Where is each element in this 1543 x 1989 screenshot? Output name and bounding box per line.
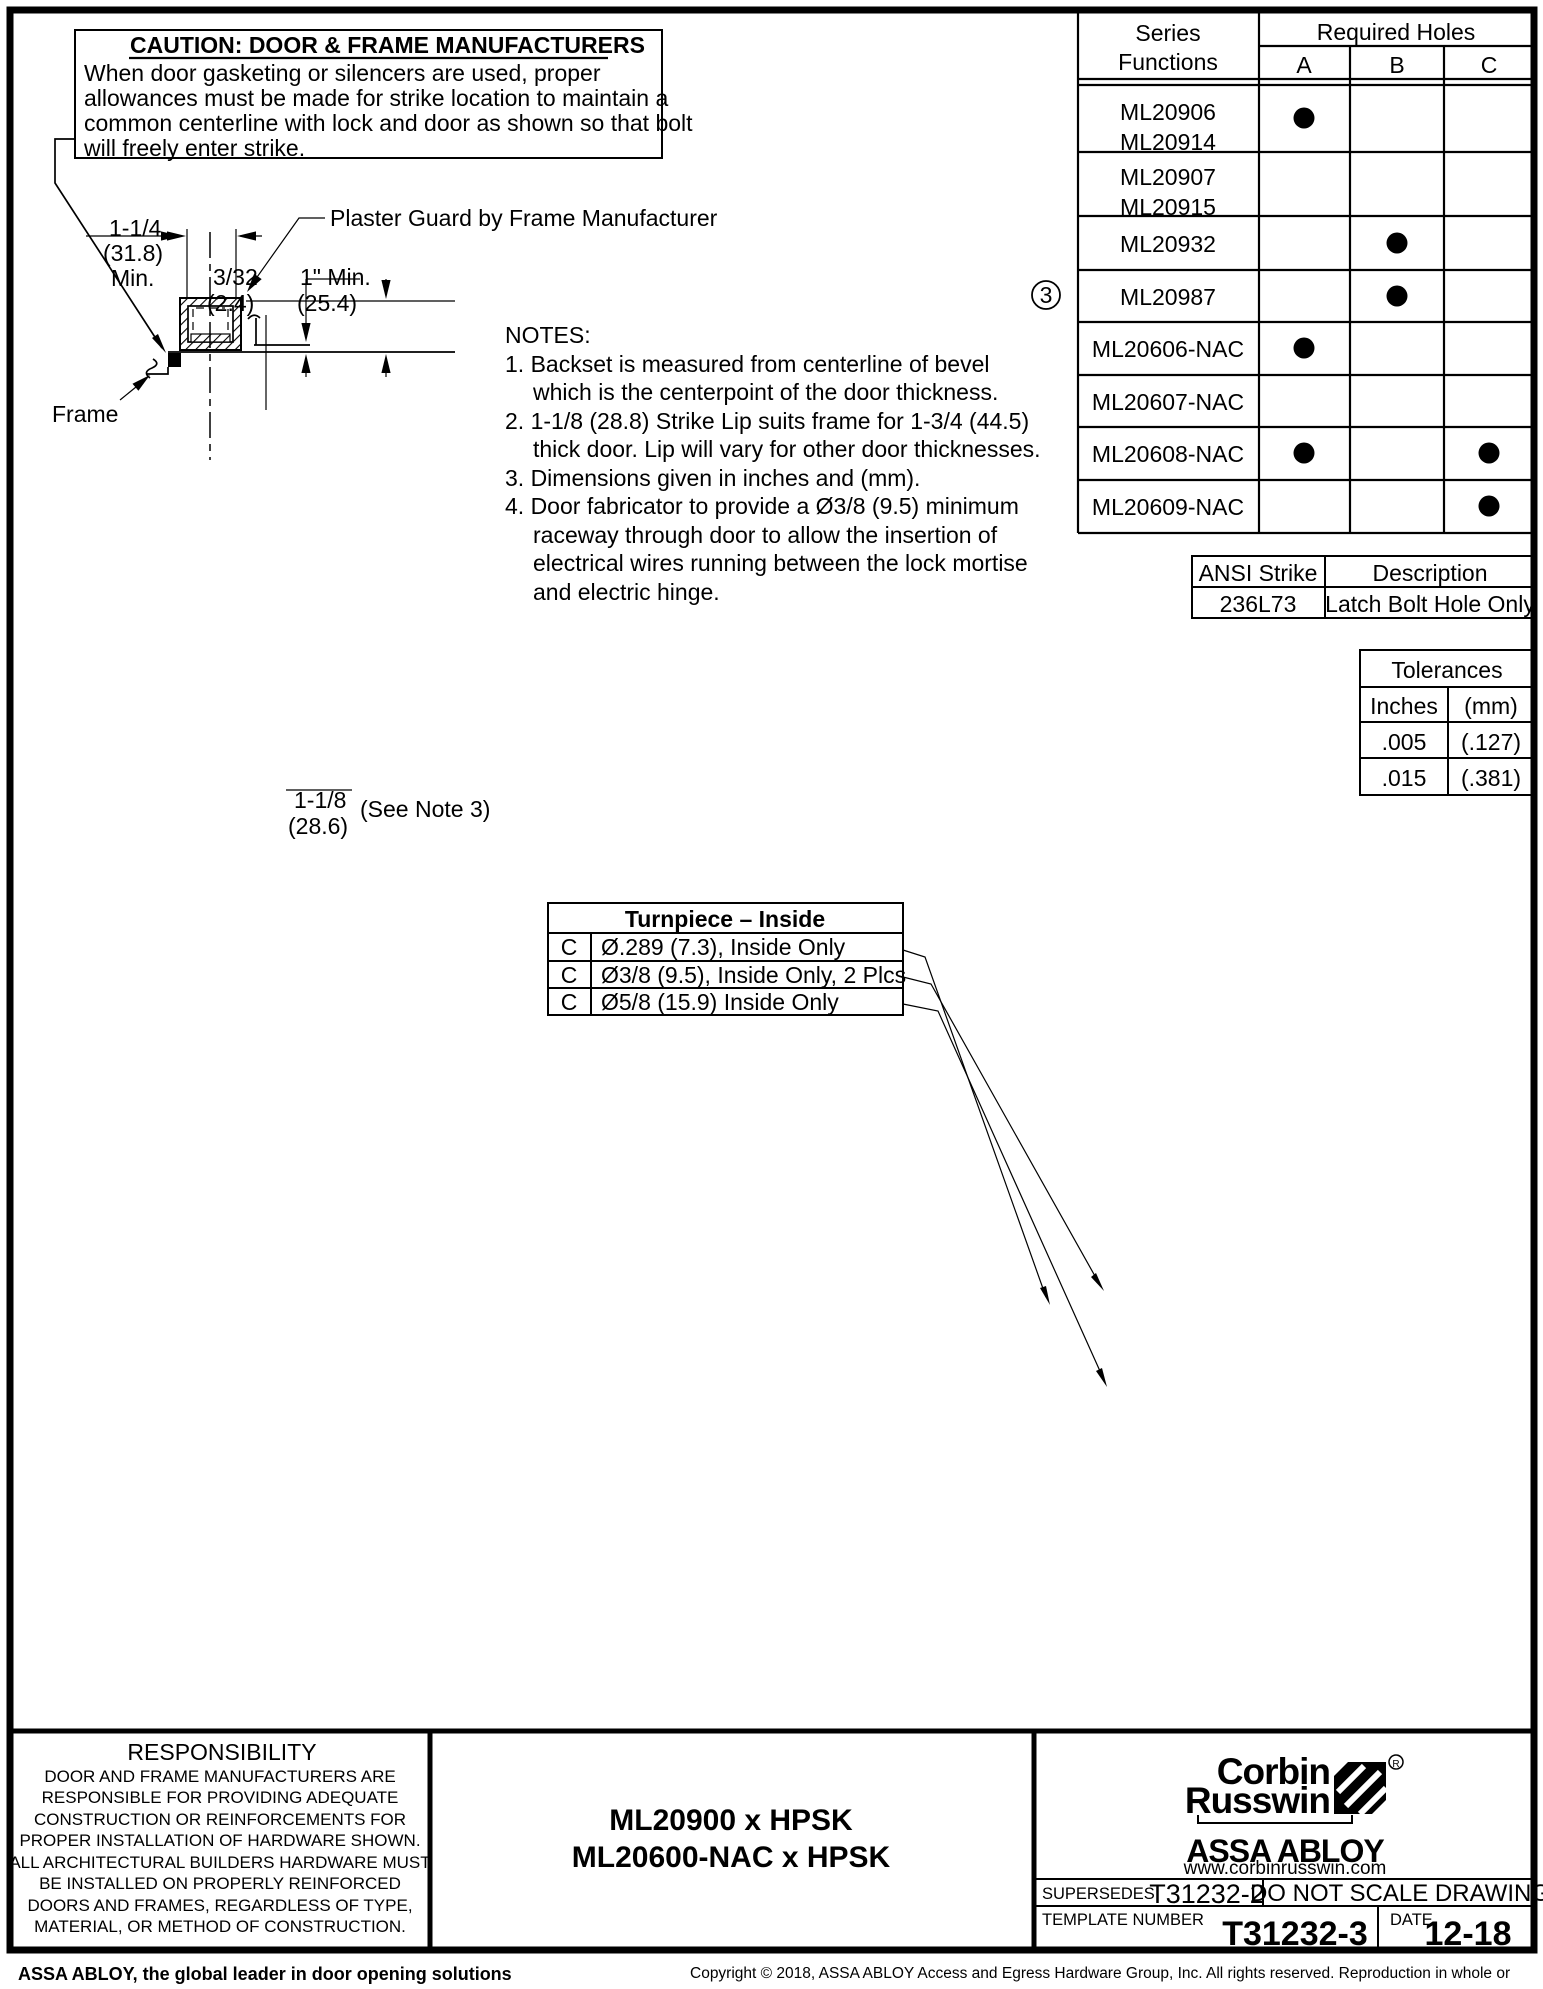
svg-text:3: 3	[1040, 282, 1053, 308]
svg-text:SUPERSEDES: SUPERSEDES	[1042, 1885, 1155, 1903]
svg-text:DOORS AND FRAMES, REGARDLESS O: DOORS AND FRAMES, REGARDLESS OF TYPE,	[27, 1896, 412, 1915]
svg-text:4. Door fabricator to provide: 4. Door fabricator to provide a Ø3/8 (9.…	[505, 493, 1019, 519]
svg-text:www.corbinrusswin.com: www.corbinrusswin.com	[1183, 1858, 1387, 1879]
svg-text:PROPER INSTALLATION OF HARDWAR: PROPER INSTALLATION OF HARDWARE SHOWN.	[19, 1831, 420, 1850]
svg-text:CAUTION: DOOR & FRAME MANUFACT: CAUTION: DOOR & FRAME MANUFACTURERS	[130, 32, 645, 58]
hole dots	[1294, 108, 1315, 129]
svg-text:and electric hinge.: and electric hinge.	[533, 579, 720, 605]
plaster guard hatched box	[180, 298, 241, 350]
svg-text:(See Note 3): (See Note 3)	[360, 796, 490, 822]
svg-text:Functions: Functions	[1118, 49, 1218, 75]
svg-text:ALL ARCHITECTURAL BUILDERS HAR: ALL ARCHITECTURAL BUILDERS HARDWARE MUST	[9, 1853, 430, 1872]
footer	[18, 1964, 1510, 1984]
svg-text:C: C	[1481, 52, 1498, 78]
svg-text:A: A	[1296, 52, 1312, 78]
svg-text:ML20607-NAC: ML20607-NAC	[1092, 389, 1244, 415]
svg-text:Tolerances: Tolerances	[1391, 657, 1502, 683]
svg-text:ML20600-NAC x HPSK: ML20600-NAC x HPSK	[572, 1841, 891, 1874]
svg-text:TEMPLATE NUMBER: TEMPLATE NUMBER	[1042, 1911, 1204, 1929]
series table	[1032, 13, 1534, 533]
svg-text:RESPONSIBLE FOR PROVIDING ADEQ: RESPONSIBLE FOR PROVIDING ADEQUATE	[42, 1788, 399, 1807]
svg-text:ML20609-NAC: ML20609-NAC	[1092, 494, 1244, 520]
svg-text:DO NOT SCALE DRAWING: DO NOT SCALE DRAWING	[1250, 1880, 1543, 1907]
caution box	[55, 30, 693, 353]
svg-text:Russwin: Russwin	[1185, 1780, 1330, 1821]
wood door	[0, 0, 1, 1]
svg-text:electrical wires running betwe: electrical wires running between the loc…	[533, 550, 1028, 576]
svg-text:ML20906: ML20906	[1120, 99, 1216, 125]
svg-text:thick door. Lip will vary for: thick door. Lip will vary for other door…	[533, 436, 1041, 462]
svg-text:Required Holes: Required Holes	[1317, 19, 1476, 45]
strike lip hook	[248, 315, 260, 319]
svg-text:ML20915: ML20915	[1120, 194, 1216, 220]
svg-text:Ø3/8 (9.5), Inside Only, 2 Plc: Ø3/8 (9.5), Inside Only, 2 Plcs	[601, 962, 906, 988]
frame section	[52, 205, 718, 839]
metal door	[0, 0, 1, 1]
svg-text:NOTES:: NOTES:	[505, 322, 591, 348]
svg-text:.005: .005	[1382, 729, 1427, 755]
svg-text:1-1/4: 1-1/4	[109, 215, 162, 241]
svg-text:T31232-3: T31232-3	[1222, 1915, 1368, 1953]
svg-text:(31.8): (31.8)	[103, 240, 163, 266]
frame surface lines	[168, 351, 455, 353]
svg-text:Latch Bolt Hole Only: Latch Bolt Hole Only	[1325, 591, 1535, 617]
svg-text:R: R	[1392, 1759, 1399, 1770]
svg-text:RESPONSIBILITY: RESPONSIBILITY	[127, 1739, 316, 1765]
corbin russwin logo	[1183, 1751, 1403, 1879]
svg-text:ML20608-NAC: ML20608-NAC	[1092, 441, 1244, 467]
svg-text:Ø5/8 (15.9) Inside Only: Ø5/8 (15.9) Inside Only	[601, 989, 839, 1015]
svg-text:ML20914: ML20914	[1120, 129, 1216, 155]
svg-text:will freely enter strike.: will freely enter strike.	[83, 135, 305, 161]
svg-text:Copyright © 2018, ASSA ABLOY A: Copyright © 2018, ASSA ABLOY Access and …	[690, 1965, 1510, 1982]
svg-text:Description: Description	[1372, 560, 1487, 586]
svg-text:(.381): (.381)	[1461, 765, 1521, 791]
svg-text:(.127): (.127)	[1461, 729, 1521, 755]
svg-text:(28.6): (28.6)	[288, 813, 348, 839]
svg-text:Ø.289 (7.3), Inside Only: Ø.289 (7.3), Inside Only	[601, 934, 846, 960]
svg-text:236L73: 236L73	[1220, 591, 1297, 617]
svg-text:1. Backset is measured from ce: 1. Backset is measured from centerline o…	[505, 351, 990, 377]
lock side view	[0, 0, 1, 1]
svg-text:which is the centerpoint of th: which is the centerpoint of the door thi…	[532, 379, 998, 405]
svg-text:2. 1-1/8 (28.8) Strike Lip sui: 2. 1-1/8 (28.8) Strike Lip suits frame f…	[505, 408, 1029, 434]
svg-text:(mm): (mm)	[1464, 693, 1518, 719]
frame stop	[168, 353, 181, 367]
svg-text:Min.: Min.	[111, 265, 154, 291]
svg-text:C: C	[561, 989, 578, 1015]
svg-text:allowances must be made for st: allowances must be made for strike locat…	[84, 85, 668, 111]
strike detail	[0, 0, 1, 1]
svg-text:CONSTRUCTION OR REINFORCEMENTS: CONSTRUCTION OR REINFORCEMENTS FOR	[34, 1810, 406, 1829]
svg-text:C: C	[561, 934, 578, 960]
svg-text:BE INSTALLED ON PROPERLY REINF: BE INSTALLED ON PROPERLY REINFORCED	[39, 1874, 401, 1893]
svg-text:T31232-2: T31232-2	[1149, 1879, 1265, 1909]
svg-text:C: C	[561, 962, 578, 988]
tolerances table	[1360, 650, 1534, 795]
lock body	[0, 0, 1, 1]
svg-text:(25.4): (25.4)	[297, 290, 357, 316]
svg-text:Frame: Frame	[52, 401, 118, 427]
title block	[9, 1731, 1543, 1953]
svg-text:.015: .015	[1382, 765, 1427, 791]
svg-text:1" Min.: 1" Min.	[300, 264, 371, 290]
svg-text:ML20900 x HPSK: ML20900 x HPSK	[609, 1804, 853, 1837]
svg-text:3. Dimensions given in inches: 3. Dimensions given in inches and (mm).	[505, 465, 920, 491]
CL dashline upper	[209, 232, 211, 460]
svg-text:ASSA ABLOY, the global leader: ASSA ABLOY, the global leader in door op…	[18, 1964, 512, 1984]
svg-text:raceway through door to allow: raceway through door to allow the insert…	[533, 522, 998, 548]
svg-text:Plaster Guard by Frame Manufac: Plaster Guard by Frame Manufacturer	[330, 205, 718, 231]
caution leader	[55, 139, 162, 348]
turnpiece table	[548, 903, 1107, 1387]
turnpiece leaders	[903, 950, 1104, 1380]
notes	[505, 322, 1041, 605]
svg-text:ML20606-NAC: ML20606-NAC	[1092, 336, 1244, 362]
svg-text:B: B	[1389, 52, 1404, 78]
svg-text:DOOR AND FRAME MANUFACTURERS A: DOOR AND FRAME MANUFACTURERS ARE	[44, 1767, 395, 1786]
svg-text:MATERIAL, OR METHOD OF CONSTRU: MATERIAL, OR METHOD OF CONSTRUCTION.	[34, 1917, 406, 1936]
svg-text:12-18: 12-18	[1425, 1915, 1512, 1953]
svg-text:ML20932: ML20932	[1120, 231, 1216, 257]
svg-text:3/32: 3/32	[213, 264, 258, 290]
svg-text:1-1/8: 1-1/8	[294, 787, 346, 813]
svg-text:Turnpiece – Inside: Turnpiece – Inside	[625, 906, 825, 932]
svg-text:(2.4): (2.4)	[207, 290, 254, 316]
ansi table	[1192, 556, 1535, 618]
circled 3	[1032, 281, 1060, 309]
svg-text:ML20987: ML20987	[1120, 284, 1216, 310]
svg-text:ML20907: ML20907	[1120, 164, 1216, 190]
svg-text:Series: Series	[1135, 20, 1200, 46]
svg-text:common centerline with lock an: common centerline with lock and door as …	[84, 110, 693, 136]
svg-text:ANSI Strike: ANSI Strike	[1199, 560, 1318, 586]
svg-text:When door gasketing or silence: When door gasketing or silencers are use…	[84, 60, 601, 86]
svg-text:Inches: Inches	[1370, 693, 1438, 719]
